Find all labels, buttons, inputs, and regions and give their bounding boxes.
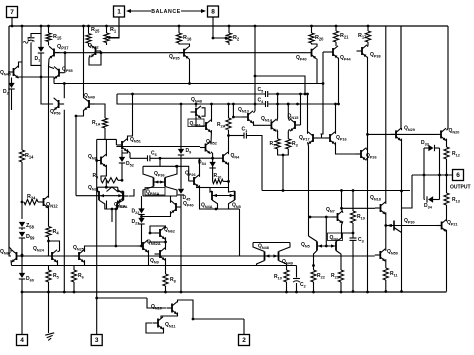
terminal 8 xyxy=(208,6,219,17)
svg-text:R1: R1 xyxy=(110,27,117,33)
transistor QP40A xyxy=(175,203,177,211)
wire xyxy=(101,165,106,181)
transistor QP17 xyxy=(312,134,314,142)
wire xyxy=(385,259,387,268)
wire xyxy=(159,158,161,166)
transistor QN4A / QN5 pair xyxy=(211,191,213,200)
wire xyxy=(75,116,77,196)
wire xyxy=(213,17,226,38)
wire xyxy=(85,209,116,252)
capacitor C2 xyxy=(296,266,298,278)
wire xyxy=(107,201,118,210)
transistor QN9 xyxy=(159,250,161,258)
transistor QP56 xyxy=(58,100,60,108)
resistor R6 xyxy=(73,266,75,271)
wire base bus xyxy=(65,52,306,54)
wire xyxy=(63,110,65,292)
wire xyxy=(165,242,167,250)
wire xyxy=(367,147,368,150)
wire xyxy=(446,159,448,175)
wire xyxy=(312,43,318,47)
transistor QN25 (mirror) xyxy=(78,252,80,260)
resistor R5 xyxy=(48,266,50,271)
capacitor C4 xyxy=(265,101,267,107)
wire xyxy=(385,26,387,204)
svg-text:8: 8 xyxy=(211,9,215,16)
wire xyxy=(447,26,449,129)
wire xyxy=(148,250,150,265)
wire pair bottom xyxy=(212,200,235,209)
wire xyxy=(76,110,84,116)
wire xyxy=(115,139,117,145)
junction xyxy=(105,25,108,28)
wire xyxy=(268,103,339,105)
terminal 2 xyxy=(243,319,245,334)
transistor QP26 xyxy=(360,150,362,158)
transistor QN51 xyxy=(121,141,123,149)
wire xyxy=(146,323,164,333)
junction xyxy=(47,25,50,28)
wire xyxy=(128,94,133,141)
wire xyxy=(84,260,86,265)
wire xyxy=(63,84,65,99)
junction xyxy=(40,25,43,28)
transistor QP37 xyxy=(48,42,50,46)
wire xyxy=(352,223,354,238)
transistor QP26 (mid) xyxy=(193,177,195,185)
terminal 1 xyxy=(114,6,125,17)
wire bias bus xyxy=(22,255,375,257)
wire xyxy=(64,53,66,73)
wire xyxy=(179,43,190,47)
transistor QN15 xyxy=(294,121,296,129)
wire xyxy=(141,224,143,242)
wire xyxy=(307,94,309,134)
wire xyxy=(316,59,318,84)
svg-text:R15: R15 xyxy=(53,34,62,40)
svg-text:R2: R2 xyxy=(233,35,240,41)
resistor R14 xyxy=(19,150,24,162)
wire xyxy=(233,104,242,117)
wire xyxy=(314,251,318,271)
wire xyxy=(108,17,119,38)
diode D2 xyxy=(11,78,13,85)
diode D33 xyxy=(428,145,433,151)
wire xyxy=(400,26,402,128)
junction xyxy=(367,25,370,28)
terminal 4 xyxy=(21,292,23,335)
resistor R25 xyxy=(88,26,90,34)
svg-text:QN12: QN12 xyxy=(46,202,58,208)
wire QP17 emitter drop xyxy=(308,142,309,236)
wire xyxy=(228,162,230,181)
wire xyxy=(170,196,172,203)
transistor QN11 xyxy=(157,319,159,328)
diode D45 xyxy=(178,189,184,194)
wire QN18 base line xyxy=(342,207,376,209)
wire xyxy=(277,94,279,104)
wire xyxy=(278,149,289,155)
wire xyxy=(11,18,13,27)
resistor R9 xyxy=(101,178,118,183)
resistor R13 xyxy=(446,175,448,193)
junction xyxy=(40,76,43,79)
wire xyxy=(228,153,230,155)
wire xyxy=(49,67,55,69)
resistor R8 xyxy=(163,274,168,286)
svg-text:OUTPUT: OUTPUT xyxy=(450,185,471,191)
junction xyxy=(228,25,231,28)
transistor QN10 xyxy=(171,304,173,313)
wire xyxy=(143,165,177,167)
wire bus xyxy=(262,190,410,192)
diode D22 xyxy=(141,196,143,210)
junction xyxy=(21,25,24,28)
wire xyxy=(104,128,106,139)
wire xyxy=(83,26,85,99)
resistor R20 xyxy=(311,26,313,33)
wire xyxy=(89,53,101,65)
wire xyxy=(385,280,387,292)
svg-text:R24: R24 xyxy=(27,194,36,200)
wire xyxy=(141,242,143,246)
wire xyxy=(189,59,191,84)
svg-text:R25: R25 xyxy=(91,27,100,33)
wire pin3 riser xyxy=(96,139,98,298)
svg-text:4: 4 xyxy=(20,337,24,344)
resistor R12 xyxy=(444,147,449,159)
transistor QN52 xyxy=(205,144,207,152)
resistor R10 xyxy=(213,179,224,183)
wire QN2 base feed xyxy=(76,195,99,197)
wire xyxy=(41,53,53,104)
transistor QP44 xyxy=(335,42,337,46)
wire xyxy=(322,52,324,84)
transistor QP36A xyxy=(164,178,166,187)
transistor QN49 xyxy=(88,100,90,108)
diode D23 xyxy=(141,215,143,220)
resistor R17 xyxy=(367,26,369,31)
wire xyxy=(342,191,343,213)
wire xyxy=(385,203,387,205)
capacitor C6 xyxy=(147,155,149,161)
svg-text:3: 3 xyxy=(95,337,99,344)
wire QN51/QN52 base line xyxy=(116,146,200,148)
wire xyxy=(21,202,23,219)
transistor QP30 xyxy=(393,221,395,231)
wire xyxy=(129,189,134,196)
transistor QN18 xyxy=(380,204,382,212)
wire xyxy=(199,158,201,177)
wire xyxy=(336,251,341,271)
wire D9/D45 column xyxy=(180,155,182,189)
transistor QP55 xyxy=(58,69,60,77)
wire xyxy=(288,129,289,139)
svg-text:7: 7 xyxy=(10,9,14,16)
wire xyxy=(446,205,448,221)
wire xyxy=(154,181,166,183)
wire xyxy=(336,233,342,242)
resistor R21 xyxy=(335,26,337,31)
transistor QN45 xyxy=(13,68,15,76)
capacitor C5 xyxy=(265,91,267,97)
transistor QN20 xyxy=(440,130,442,138)
wire QN7 base line xyxy=(310,216,332,218)
transistor QN48 (diode-connected) xyxy=(195,108,197,116)
capacitor C7 xyxy=(28,37,35,39)
transistor QN13 xyxy=(247,113,249,121)
wire V+ right rail xyxy=(447,26,449,129)
wire base line xyxy=(368,133,436,135)
svg-text:2: 2 xyxy=(242,337,246,344)
wire xyxy=(400,26,402,128)
wire xyxy=(342,221,354,233)
wire xyxy=(202,108,206,116)
wire xyxy=(276,130,279,139)
svg-text:6: 6 xyxy=(456,172,460,179)
wire xyxy=(336,142,356,154)
transistor QN50 xyxy=(379,251,381,259)
wire xyxy=(402,175,413,208)
svg-text:R21: R21 xyxy=(340,33,349,39)
transistor QN2A xyxy=(122,192,124,201)
wire xyxy=(148,241,150,243)
wire xyxy=(286,282,288,292)
wire xyxy=(323,51,328,53)
wire xyxy=(128,151,131,159)
wire xyxy=(108,36,111,39)
wire xyxy=(165,286,167,292)
resistor R2 xyxy=(228,26,230,33)
wire xyxy=(48,59,51,67)
wire xyxy=(213,157,218,159)
wire xyxy=(57,260,59,265)
wire xyxy=(31,26,41,37)
wire xyxy=(121,163,123,180)
wire xyxy=(89,45,91,48)
wire xyxy=(54,52,65,54)
wire xyxy=(178,300,194,319)
transistor QN24 (diode-connected) xyxy=(51,252,53,260)
wire bus y104 xyxy=(117,94,266,104)
wire xyxy=(19,62,23,68)
wire xyxy=(95,104,106,118)
diode D54 xyxy=(209,162,215,167)
transistor QN47 xyxy=(188,119,204,127)
wire xyxy=(142,211,171,216)
wire xyxy=(309,236,318,242)
wire xyxy=(446,230,448,292)
wire V- left rail xyxy=(9,26,11,256)
wire xyxy=(254,121,266,125)
wire xyxy=(322,134,324,138)
wire xyxy=(48,67,50,198)
wire xyxy=(211,152,213,177)
resistor R22 xyxy=(311,270,316,282)
wire xyxy=(246,136,262,191)
wire xyxy=(9,247,11,252)
transistor QP32 xyxy=(88,43,90,46)
wire xyxy=(211,104,213,122)
wire xyxy=(8,26,10,247)
wire xyxy=(206,208,218,210)
transistor QN29 xyxy=(395,130,397,138)
wire xyxy=(338,58,340,104)
wire xyxy=(229,135,245,137)
wire bottom rail xyxy=(22,291,447,293)
wire xyxy=(239,209,241,256)
junction xyxy=(310,25,313,28)
wire QP26 base feed xyxy=(177,166,189,181)
wire xyxy=(352,240,354,291)
wire xyxy=(97,138,117,140)
resistor R1 xyxy=(106,26,108,33)
svg-text:R4: R4 xyxy=(53,229,60,235)
ground xyxy=(48,292,50,333)
transistor QN14 xyxy=(270,121,272,129)
diode D1 xyxy=(40,34,42,49)
wire xyxy=(446,139,448,147)
wire output node xyxy=(412,174,453,176)
transistor QN8 xyxy=(100,157,102,165)
wire xyxy=(31,43,41,66)
wire xyxy=(11,89,13,110)
wire xyxy=(107,187,118,192)
junction xyxy=(254,25,257,28)
wire QN29 emitter / output tie xyxy=(401,139,403,292)
wire xyxy=(335,104,337,134)
transistor QP16 xyxy=(329,134,331,142)
wire xyxy=(255,76,305,94)
transistor QP40 xyxy=(311,49,313,57)
capacitor C1 xyxy=(243,133,245,139)
junction xyxy=(178,25,181,28)
wire xyxy=(48,206,50,226)
svg-text:D59: D59 xyxy=(26,234,35,240)
wire xyxy=(279,261,287,271)
wire bus y94 xyxy=(117,93,266,95)
wire xyxy=(53,77,55,84)
zener Z58 xyxy=(19,222,25,227)
transistor QN2 / QN2A pair xyxy=(98,191,100,200)
resistor R19 xyxy=(352,191,354,212)
wire xyxy=(196,116,201,126)
transistor QP35 xyxy=(183,49,185,57)
wire xyxy=(300,94,302,125)
resistor R16 xyxy=(178,26,180,33)
junction xyxy=(87,25,90,28)
resistor R1A xyxy=(102,118,107,128)
svg-text:1: 1 xyxy=(117,9,121,16)
resistor R2A xyxy=(228,104,230,118)
diode D9 xyxy=(180,104,182,150)
wire xyxy=(84,248,86,252)
wire xyxy=(447,129,449,131)
transistor QP36 xyxy=(153,178,155,187)
resistor R15 xyxy=(48,26,50,33)
transistor QP21 xyxy=(441,222,443,230)
svg-text:QP37: QP37 xyxy=(57,44,69,50)
wire xyxy=(193,318,244,320)
wire xyxy=(212,177,214,181)
wire xyxy=(161,313,178,319)
junction xyxy=(335,25,338,28)
terminal 3 xyxy=(96,298,98,335)
transistor QN6 xyxy=(328,233,343,241)
transistor QN48 / QN49 bottom pair xyxy=(264,252,266,261)
wire xyxy=(321,84,324,135)
transistor QN62A xyxy=(142,242,144,250)
wire QP30/QP21 base line xyxy=(394,225,436,227)
wire bus xyxy=(54,83,323,85)
resistor R23 xyxy=(338,270,343,282)
junction xyxy=(63,291,66,294)
wire xyxy=(268,93,308,95)
wire xyxy=(223,180,228,182)
wire xyxy=(21,228,23,230)
wire C6 line xyxy=(130,157,148,159)
resistor R3 xyxy=(286,139,291,149)
terminal 7 xyxy=(7,7,18,18)
svg-text:R16: R16 xyxy=(183,35,192,41)
svg-text:Z58: Z58 xyxy=(26,223,35,229)
wire xyxy=(228,181,230,187)
wire xyxy=(149,237,166,242)
wire xyxy=(225,37,228,40)
svg-text:BALANCE: BALANCE xyxy=(151,9,181,15)
wire xyxy=(21,238,23,274)
resistor R10 (bottom) xyxy=(284,270,289,282)
resistor R11 xyxy=(383,268,388,280)
wire xyxy=(21,26,23,150)
wire xyxy=(165,258,167,274)
wire xyxy=(254,26,256,111)
wire xyxy=(401,128,403,130)
resistor R4 xyxy=(46,227,51,238)
diode D34 xyxy=(428,196,433,202)
transistor QN62 xyxy=(159,229,161,237)
resistor R24 xyxy=(24,199,38,204)
wire xyxy=(10,260,13,265)
wire xyxy=(180,207,182,292)
svg-text:R14: R14 xyxy=(25,153,34,159)
wire xyxy=(48,237,50,256)
wire xyxy=(257,261,265,266)
wire xyxy=(105,139,107,156)
transistor QP38 xyxy=(367,42,370,47)
wire bus2 xyxy=(12,265,297,267)
svg-text:R20: R20 xyxy=(315,35,324,41)
wire xyxy=(276,104,279,121)
wire xyxy=(200,185,207,209)
capacitor C3 xyxy=(350,237,357,239)
resistor R7 xyxy=(275,139,280,149)
diode D52 xyxy=(121,150,123,154)
wire xyxy=(313,137,330,139)
wire xyxy=(105,180,107,187)
wire xyxy=(116,245,138,247)
junction xyxy=(100,51,103,54)
wire xyxy=(118,179,122,181)
wire xyxy=(47,240,50,243)
wire xyxy=(325,217,327,246)
wire top rail xyxy=(9,25,448,27)
wire xyxy=(17,76,54,78)
wire xyxy=(180,195,182,207)
diode D59 xyxy=(19,232,25,237)
wire xyxy=(150,226,166,233)
transistor QN7 xyxy=(337,213,339,221)
